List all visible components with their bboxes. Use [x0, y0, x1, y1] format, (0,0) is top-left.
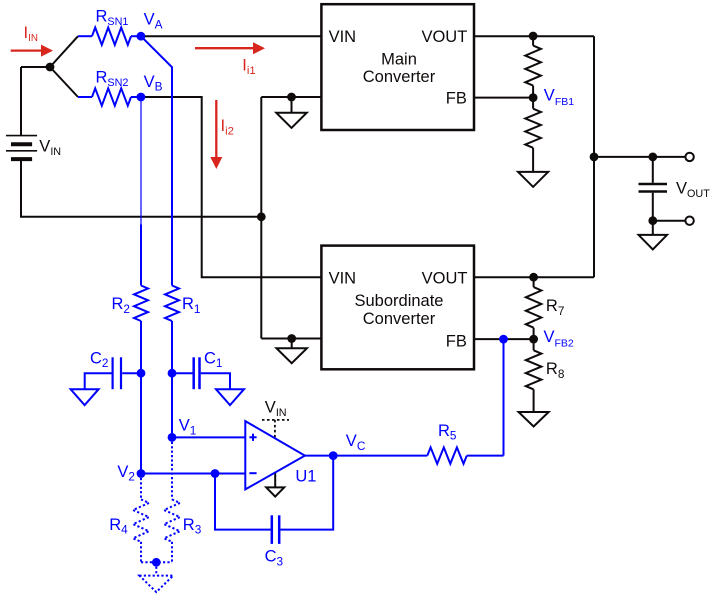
svg-text:Main: Main	[381, 50, 417, 68]
svg-text:VIN: VIN	[329, 270, 357, 288]
svg-text:U1: U1	[295, 468, 316, 486]
svg-text:VOUT: VOUT	[422, 270, 468, 288]
svg-text:FB: FB	[446, 90, 467, 108]
svg-text:VIN: VIN	[329, 28, 357, 46]
svg-text:Converter: Converter	[363, 310, 436, 328]
svg-text:Converter: Converter	[363, 68, 436, 86]
svg-text:Subordinate: Subordinate	[355, 292, 444, 310]
svg-text:VOUT: VOUT	[421, 28, 467, 46]
svg-text:FB: FB	[446, 333, 467, 351]
